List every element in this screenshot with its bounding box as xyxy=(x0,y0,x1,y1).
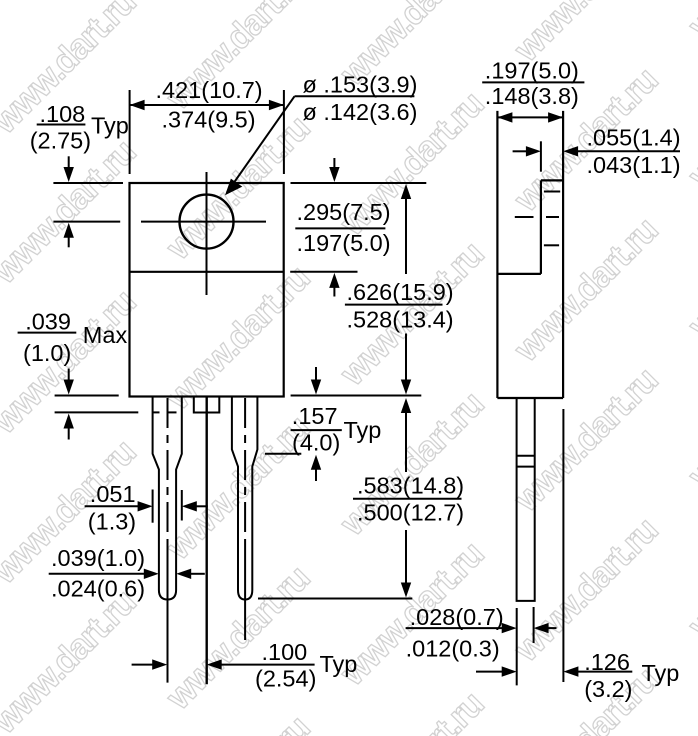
lead crimp lines xyxy=(517,455,535,457)
svg-text:.039: .039 xyxy=(25,309,71,335)
svg-text:(1.0): (1.0) xyxy=(23,340,71,366)
dim .126 arrows xyxy=(476,671,503,673)
dim .421 ext lines xyxy=(129,90,131,174)
separator extension line xyxy=(290,271,357,273)
svg-text:.197(5.0): .197(5.0) xyxy=(297,230,391,256)
svg-text:.012(0.3): .012(0.3) xyxy=(406,636,500,662)
svg-text:.028(0.7): .028(0.7) xyxy=(410,604,504,630)
dim .295 arrows xyxy=(333,158,335,170)
dim .157 arrowhead up xyxy=(311,455,321,470)
package body front view outline xyxy=(130,183,284,397)
svg-text:.126: .126 xyxy=(584,649,630,675)
svg-text:.039(1.0): .039(1.0) xyxy=(51,545,145,571)
dim .039Max arrowhead up xyxy=(64,414,74,429)
dim .157 knee ref line xyxy=(265,453,301,455)
side view tab xyxy=(541,179,563,181)
dim .039Max ref lines xyxy=(55,395,119,397)
side lead xyxy=(517,398,535,601)
lead 2 (center) line xyxy=(205,397,207,685)
body bottom extension line xyxy=(291,395,422,397)
svg-text:.043(1.1): .043(1.1) xyxy=(587,152,681,178)
lead 1 (left) outline xyxy=(153,397,182,600)
svg-text:.024(0.6): .024(0.6) xyxy=(51,575,145,601)
hole hidden lines xyxy=(544,191,560,193)
dim .039 arrows xyxy=(49,573,145,575)
hole vertical centerline xyxy=(206,172,208,295)
dambar dashed line xyxy=(153,411,160,413)
tab face tick xyxy=(540,141,542,171)
svg-text:Typ: Typ xyxy=(320,651,358,677)
hole centerline side xyxy=(515,216,534,218)
dim .421 line xyxy=(130,104,284,106)
svg-text:.295(7.5): .295(7.5) xyxy=(297,199,391,225)
dim .197 bar xyxy=(482,81,584,83)
dim .039 arrowheads xyxy=(144,569,159,579)
lead 3 (right) outline xyxy=(232,397,258,600)
lead 2 (center) dambar box xyxy=(194,397,220,413)
lead 3 centerline xyxy=(244,398,246,545)
dim .100 arrows xyxy=(132,664,154,666)
svg-text:.374(9.5): .374(9.5) xyxy=(162,107,256,133)
svg-text:.421(10.7): .421(10.7) xyxy=(156,77,263,103)
lead tip ref line xyxy=(258,598,412,600)
svg-text:(2.54): (2.54) xyxy=(255,666,316,692)
svg-text:.108: .108 xyxy=(40,101,86,127)
svg-text:Typ: Typ xyxy=(344,417,382,443)
dim .197 arrowheads xyxy=(497,112,512,122)
svg-text:ø .142(3.6): ø .142(3.6) xyxy=(303,99,418,125)
svg-text:Max: Max xyxy=(83,322,128,348)
dim .108 ref lines xyxy=(53,182,123,184)
dim .157 arrowhead down xyxy=(311,380,321,395)
side view body xyxy=(496,111,498,398)
dim .051 ticks xyxy=(152,490,154,523)
dim .051 arrowheads xyxy=(138,501,153,511)
dim .039Max arrowhead down xyxy=(64,380,74,395)
svg-text:.051: .051 xyxy=(90,481,136,507)
dim .028 arrows xyxy=(406,627,503,629)
hole horizontal centerline (inner) xyxy=(141,221,266,223)
svg-text:.583(14.8): .583(14.8) xyxy=(357,472,464,498)
dim .295 arrowhead down xyxy=(329,167,339,182)
svg-text:(3.2): (3.2) xyxy=(584,676,632,702)
dim .295 arrowhead up xyxy=(329,273,339,288)
dim .108 arrowhead up xyxy=(64,223,74,238)
lead 1 centerline xyxy=(167,398,169,545)
dim .197 line xyxy=(497,116,563,118)
hole dia leader xyxy=(295,95,415,97)
dim .100 arrowheads xyxy=(152,659,167,669)
svg-text:Typ: Typ xyxy=(91,113,129,139)
dim .055 arrows xyxy=(513,150,527,152)
dim .126 ext line xyxy=(562,409,564,682)
dim .421 arrowheads xyxy=(130,100,145,110)
dim .051 arrows xyxy=(85,505,139,507)
mounting hole xyxy=(180,195,234,249)
svg-text:ø .153(3.9): ø .153(3.9) xyxy=(303,72,418,98)
svg-text:.148(3.8): .148(3.8) xyxy=(485,83,579,109)
dim .626 arrowheads xyxy=(401,184,411,199)
svg-text:Typ: Typ xyxy=(642,660,680,686)
lead face ticks xyxy=(516,608,518,685)
hole dia leader arrowhead xyxy=(225,179,242,196)
svg-text:.500(12.7): .500(12.7) xyxy=(357,500,464,526)
dim .028 arrowheads xyxy=(502,623,517,633)
svg-text:.197(5.0): .197(5.0) xyxy=(485,58,579,84)
svg-text:.157: .157 xyxy=(292,403,338,429)
svg-text:.055(1.4): .055(1.4) xyxy=(587,124,681,150)
dim .626 line xyxy=(405,198,407,275)
svg-text:.100: .100 xyxy=(262,639,308,665)
svg-text:.626(15.9): .626(15.9) xyxy=(347,279,454,305)
dim .108 arrowhead down xyxy=(64,167,74,182)
dim .108 arrows xyxy=(68,156,70,170)
svg-text:(4.0): (4.0) xyxy=(292,430,340,456)
tab/body separator line xyxy=(130,271,284,273)
dim .583 arrowheads xyxy=(401,398,411,413)
dim .126 arrowheads xyxy=(502,666,517,676)
dim .039Max arrows xyxy=(68,369,70,383)
dim .157 arrows xyxy=(315,367,317,381)
svg-text:(1.3): (1.3) xyxy=(88,509,136,535)
svg-text:(2.75): (2.75) xyxy=(30,128,91,154)
dim .055 arrowheads xyxy=(526,146,541,156)
dim .583 line xyxy=(405,412,407,473)
tab top extension line xyxy=(291,182,427,184)
svg-text:.528(13.4): .528(13.4) xyxy=(347,307,454,333)
